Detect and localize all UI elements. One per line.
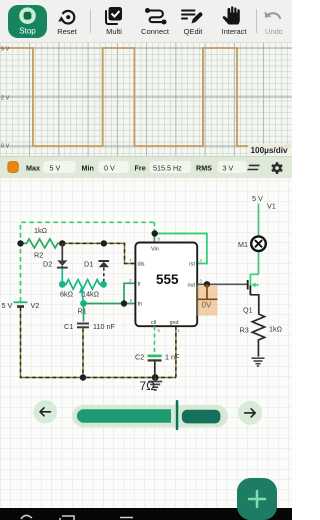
svg-text:1kΩ: 1kΩ <box>269 325 283 334</box>
svg-text:V2: V2 <box>31 301 40 310</box>
potentiometer R1 track <box>62 280 103 290</box>
wire out (gray) <box>197 283 248 285</box>
divider <box>90 9 91 33</box>
svg-text:R2: R2 <box>34 251 43 260</box>
meter M1 <box>251 236 266 251</box>
svg-text:rst: rst <box>189 262 195 268</box>
wire tr tap (green) <box>124 283 135 303</box>
svg-text:555: 555 <box>156 272 179 287</box>
svg-text:5 V: 5 V <box>50 164 61 173</box>
svg-text:out: out <box>188 282 196 288</box>
svg-text:1kΩ: 1kΩ <box>34 226 48 235</box>
QEdit icon <box>181 10 202 24</box>
major gridlines <box>0 43 292 156</box>
op-amp/IC 555 body <box>135 243 197 327</box>
orange marker <box>8 162 18 173</box>
trace cursor dot <box>285 143 290 148</box>
svg-text:6kΩ: 6kΩ <box>60 290 74 299</box>
svg-text:515.5 Hz: 515.5 Hz <box>153 164 182 173</box>
capacitor C2 <box>148 356 162 378</box>
svg-text:V1: V1 <box>267 202 276 211</box>
Interact icon (hand) <box>223 5 240 25</box>
Stop button <box>8 5 47 38</box>
wire rst loop (green) <box>155 234 207 264</box>
node R2 right <box>59 240 65 246</box>
Reset button <box>58 11 74 24</box>
svg-text:0 V: 0 V <box>104 164 115 173</box>
Connect icon <box>145 8 167 25</box>
node tr tap <box>121 300 127 306</box>
node D1 top <box>101 240 107 246</box>
svg-text:M1: M1 <box>238 240 248 249</box>
Undo icon (disabled) <box>265 12 281 19</box>
node out <box>204 281 210 287</box>
wire wiper to C1 <box>83 304 85 322</box>
wire dis net (olive dashed) <box>62 243 135 263</box>
svg-text:D1: D1 <box>84 260 93 269</box>
svg-text:14kΩ: 14kΩ <box>82 290 100 299</box>
scroll slider divider <box>176 400 179 430</box>
svg-text:3 V: 3 V <box>223 164 234 173</box>
wire ground net (olive dashed) <box>21 308 176 378</box>
wire V1 (green) <box>258 204 260 275</box>
list icon <box>247 165 260 171</box>
Multi icon <box>106 7 122 24</box>
svg-text:0 V: 0 V <box>1 144 10 150</box>
svg-text:5 V: 5 V <box>2 301 13 310</box>
svg-text:tr: tr <box>138 281 141 287</box>
ground symbol main <box>148 378 162 391</box>
capacitor C1 <box>77 324 89 328</box>
measurement bar <box>0 156 292 178</box>
svg-text:D2: D2 <box>43 260 52 269</box>
node pot right <box>100 281 107 288</box>
node pot left <box>59 281 66 288</box>
divider <box>256 9 257 33</box>
svg-text:Min: Min <box>82 164 94 173</box>
svg-text:C1: C1 <box>64 322 73 331</box>
svg-text:Stop: Stop <box>19 27 36 36</box>
svg-text:RMS: RMS <box>196 164 212 173</box>
svg-text:Q1: Q1 <box>243 306 253 315</box>
svg-text:ctl: ctl <box>151 320 156 326</box>
svg-text:Vin: Vin <box>151 247 159 253</box>
ground symbol R3 <box>252 358 265 366</box>
svg-text:100µs/div: 100µs/div <box>251 146 288 155</box>
transistor Q1 <box>248 274 259 314</box>
svg-text:7Ω: 7Ω <box>140 379 156 393</box>
node C1 gnd <box>80 374 86 380</box>
toolbar <box>0 0 292 43</box>
node R2 left <box>17 240 23 246</box>
svg-text:5 V: 5 V <box>252 194 263 203</box>
timebase label <box>248 144 292 156</box>
scroll slider track <box>72 405 228 427</box>
svg-text:gnd: gnd <box>170 320 179 326</box>
scroll slider right bar <box>182 410 221 424</box>
svg-text:Max: Max <box>26 164 40 173</box>
resistor R2 <box>21 239 63 248</box>
wire C1 to ground net (olive dashed) <box>82 329 84 378</box>
scroll slider right arrow <box>238 401 262 425</box>
wire V2+ to R2 and Vin (green dashed) <box>21 222 155 301</box>
svg-text:R3: R3 <box>240 326 249 335</box>
oscilloscope panel <box>0 43 292 156</box>
svg-text:0V: 0V <box>202 301 212 310</box>
wire Vin stub <box>153 234 155 243</box>
svg-text:Fre: Fre <box>135 164 146 173</box>
svg-text:C2: C2 <box>135 353 144 362</box>
floating add button <box>237 478 277 520</box>
pot wiper arrow <box>79 288 84 304</box>
svg-text:2 V: 2 V <box>1 96 10 102</box>
scroll slider left bar <box>77 409 171 423</box>
svg-text:th: th <box>138 302 143 308</box>
scroll slider left arrow <box>34 400 57 423</box>
node pot wiper <box>80 300 87 307</box>
circuit canvas <box>0 178 292 508</box>
svg-text:5 V: 5 V <box>1 47 10 53</box>
diode D2 <box>57 243 68 281</box>
waveform trace <box>0 48 288 146</box>
svg-text:110 nF: 110 nF <box>93 322 115 331</box>
resistor R3 <box>252 314 264 357</box>
wire th (green) <box>84 303 136 305</box>
pin numbers <box>129 237 202 333</box>
svg-text:1 nF: 1 nF <box>165 353 180 362</box>
svg-text:R1: R1 <box>78 307 87 316</box>
wire ctl to C2 (green dashed) <box>154 326 156 354</box>
gear icon <box>271 162 283 217</box>
node Vin junction <box>152 230 158 236</box>
battery V2 <box>14 302 28 306</box>
svg-text:dis: dis <box>138 262 145 268</box>
node gnd junction <box>152 374 159 381</box>
probe 0V box <box>197 284 218 315</box>
android navigation bar <box>0 508 292 520</box>
diode D1 <box>99 261 110 281</box>
